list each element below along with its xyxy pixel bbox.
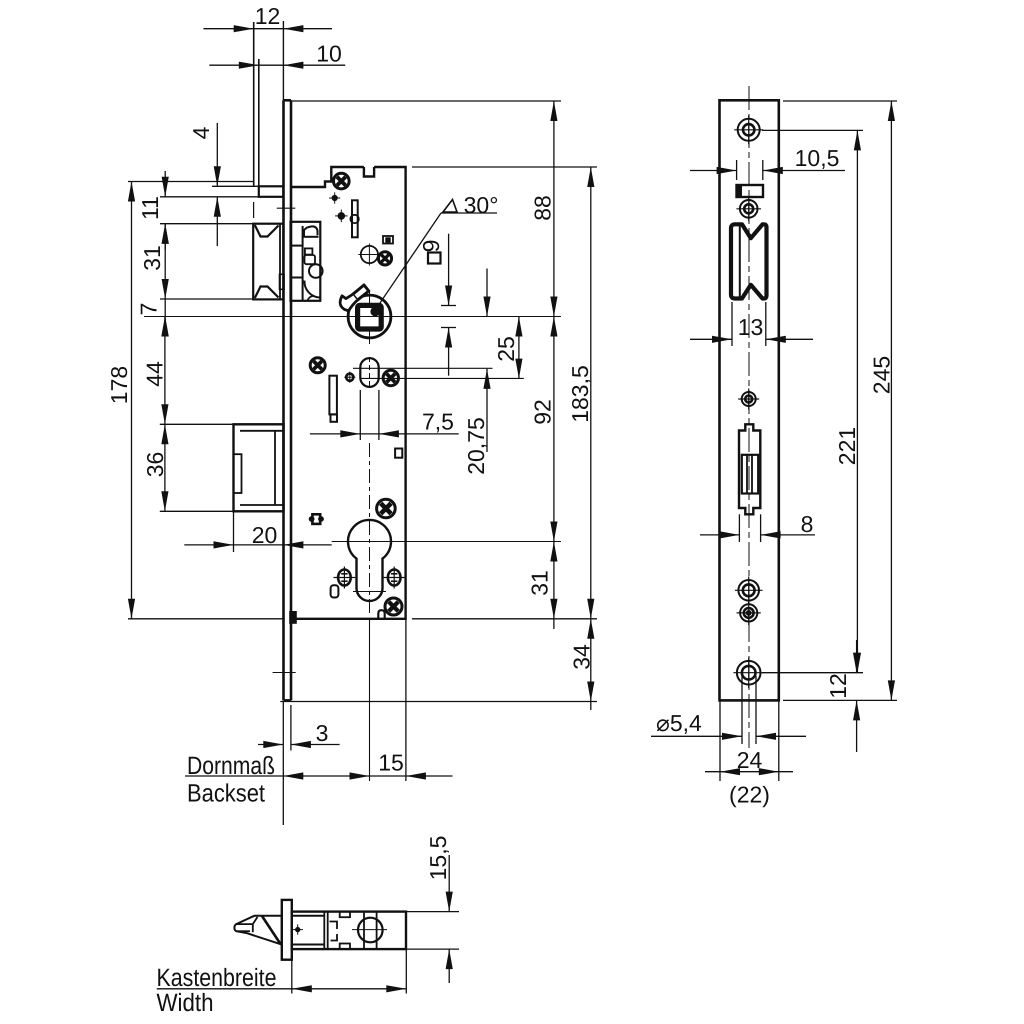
dimension 221 — [856, 130, 858, 672]
bottom view latch tail lines — [292, 915, 325, 917]
dimension 7,5 — [359, 390, 361, 440]
svg-text:12: 12 — [825, 673, 851, 699]
case step extension left — [128, 181, 253, 183]
svg-text:30°: 30° — [464, 192, 499, 218]
svg-text:24: 24 — [737, 747, 763, 773]
dimension 20,75 — [486, 269, 488, 317]
pivot dot small upper — [332, 195, 337, 200]
dimension 25 — [518, 317, 520, 379]
strip foot bottom extension left — [160, 196, 259, 198]
nut axis line — [144, 316, 561, 318]
svg-text:7: 7 — [136, 303, 162, 316]
svg-text:183,5: 183,5 — [567, 365, 593, 423]
svg-text:34: 34 — [569, 644, 595, 670]
front screw hole small upper — [740, 200, 758, 218]
front screw hole top — [738, 119, 760, 141]
dimension 8 — [738, 514, 740, 542]
plate top extension for 245 — [783, 100, 897, 102]
small rounded hole below left screw — [331, 585, 339, 597]
svg-text:36: 36 — [142, 452, 168, 478]
svg-text:10,5: 10,5 — [795, 145, 840, 171]
svg-text:(22): (22) — [729, 782, 770, 808]
upper strip rod (12mm bar) — [253, 22, 255, 186]
dimension 31 lower — [553, 542, 555, 630]
nut pin dot — [371, 307, 380, 316]
main view faceplate (side) — [282, 100, 285, 700]
deadbolt head — [234, 424, 284, 511]
svg-text:245: 245 — [869, 356, 895, 394]
dimension 10 — [209, 64, 345, 66]
bottom view pivot dot — [296, 927, 300, 931]
case top edge extension right — [412, 166, 597, 168]
cylinder fixing screw left — [338, 570, 351, 586]
lock case outline — [292, 167, 364, 187]
svg-text:13: 13 — [738, 314, 764, 340]
svg-text:8: 8 — [801, 511, 814, 537]
latch spring box inside case — [291, 222, 321, 301]
dimension 92 — [553, 317, 555, 542]
bottom view case — [292, 912, 406, 950]
svg-text:⌀5,4: ⌀5,4 — [656, 710, 702, 736]
screw top extension for 221 — [762, 129, 863, 131]
svg-text:11: 11 — [137, 196, 163, 220]
nut centrelines — [369, 290, 371, 303]
svg-text:3: 3 — [316, 720, 329, 746]
dimension 20 — [233, 511, 235, 552]
svg-text:88: 88 — [530, 195, 556, 221]
front faceplate centreline — [748, 86, 750, 748]
deadbolt bottom extension left — [160, 510, 234, 512]
dimension 15,5 — [406, 911, 459, 913]
small hole left of capsule — [346, 374, 353, 381]
faceplate stop pin (black square) — [290, 612, 297, 624]
faceplate centre tick lower — [273, 672, 296, 674]
dimension 12 right — [856, 640, 858, 673]
faceplate bottom extension right — [280, 701, 597, 703]
square follower hole 9mm — [358, 305, 382, 329]
dimension 10,5 — [736, 160, 738, 180]
svg-text:7,5: 7,5 — [422, 409, 454, 435]
kastenbreite dimension line — [291, 958, 293, 994]
case screw bottom — [385, 598, 402, 615]
front screw hole pair upper — [738, 580, 759, 601]
plate bottom extension right — [783, 699, 897, 701]
latch bolt head — [253, 224, 283, 300]
bottom view latch beak — [234, 916, 281, 945]
svg-text:4: 4 — [188, 126, 214, 139]
adjust slot upper — [352, 200, 358, 237]
latch rear tab — [280, 274, 285, 289]
tiny tab at case bottom — [378, 610, 384, 619]
dimension diameter 5,4 — [741, 676, 743, 744]
case screw left of capsule — [310, 358, 325, 373]
backset dimension line — [369, 620, 371, 781]
svg-text:Backset: Backset — [187, 780, 265, 808]
cylinder fixing screw right — [388, 570, 401, 586]
svg-text:178: 178 — [106, 366, 132, 404]
svg-text:92: 92 — [530, 399, 556, 425]
top faceplate extension line — [291, 100, 561, 102]
dimension 13 — [731, 302, 733, 346]
case screw right of capsule — [383, 370, 398, 385]
dimension 11 — [164, 171, 166, 197]
svg-text:44: 44 — [142, 361, 168, 387]
dimension square 9 — [448, 234, 450, 306]
faceplate front extension above — [282, 21, 284, 100]
bone shaped hole — [309, 517, 314, 522]
svg-text:Dornmaß: Dornmaß — [187, 752, 275, 780]
dimension 34 — [590, 619, 592, 710]
faceplate centre tick upper — [277, 207, 296, 209]
deadbolt front tab — [234, 454, 242, 493]
dimension 36 — [164, 424, 166, 511]
dimension 88 — [553, 101, 555, 317]
front latch opening — [731, 224, 767, 298]
capsule slot hole 7.5mm — [360, 358, 378, 387]
small square hole near case edge — [395, 449, 402, 458]
dimension 12 — [203, 28, 332, 30]
case bottom extension left — [128, 618, 283, 620]
strip foot tab (4mm) — [259, 186, 284, 197]
guide circle with crosshair — [361, 246, 378, 263]
cylinder centrelines — [369, 443, 371, 615]
latch bottom extension left — [160, 298, 253, 300]
svg-text:12: 12 — [255, 3, 281, 29]
svg-text:25: 25 — [493, 336, 519, 362]
front deadbolt slot — [739, 424, 760, 514]
dimension 31 latch — [164, 224, 166, 299]
dimension 3 — [282, 702, 284, 825]
svg-text:31: 31 — [139, 245, 165, 271]
capsule centre dashes — [369, 357, 371, 389]
case screw above cylinder — [377, 499, 396, 518]
latch top extension left — [160, 223, 253, 225]
angle leader 30deg — [441, 212, 497, 214]
latch top chamfer — [255, 225, 279, 237]
dimension 183,5 — [590, 167, 592, 619]
svg-text:10: 10 — [316, 41, 342, 67]
front screw hole pair lower — [740, 604, 757, 621]
svg-text:20,75: 20,75 — [463, 417, 489, 475]
svg-text:221: 221 — [834, 427, 860, 465]
pivot dot small lower — [338, 213, 345, 220]
latch lever arm on nut — [353, 285, 369, 300]
front screw hole bottom — [737, 661, 761, 685]
front screw hole mid — [742, 392, 756, 406]
spindle nut circle — [348, 295, 391, 338]
hole centre extension for 221/12 — [762, 672, 863, 674]
dimension 7 — [164, 299, 166, 332]
bottom view nut circle — [358, 918, 383, 943]
deadbolt top extension left — [160, 423, 234, 425]
case bottom extension right — [412, 618, 597, 620]
front rect hole 10,5 — [737, 185, 764, 197]
latch bottom chamfer — [255, 287, 279, 299]
latch face extension dash — [253, 202, 255, 218]
euro cylinder hole — [348, 520, 391, 601]
svg-text:15,5: 15,5 — [425, 836, 451, 881]
bottom view tabs — [340, 912, 350, 918]
front faceplate outline — [720, 100, 779, 700]
dimension 44 — [164, 317, 166, 425]
dimension 24 — [719, 700, 721, 781]
case screw mid-upper — [378, 252, 391, 265]
bottom view partition lines — [323, 912, 325, 950]
svg-text:Kastenbreite: Kastenbreite — [157, 964, 277, 992]
dimension 4 — [216, 123, 218, 186]
svg-text:20: 20 — [252, 522, 278, 548]
strip foot top extension left — [212, 185, 259, 187]
adjust slot lower — [329, 376, 337, 415]
svg-text:31: 31 — [527, 570, 553, 596]
bottom view mid bracket — [330, 922, 338, 930]
svg-text:Width: Width — [157, 989, 214, 1017]
svg-text:15: 15 — [378, 750, 404, 776]
case top notch — [364, 167, 374, 177]
case screw top-left — [334, 173, 350, 189]
bottom view faceplate bar — [282, 900, 292, 960]
dimension 178 — [131, 182, 133, 619]
dimension 245 — [890, 101, 892, 700]
small square hole with pin — [383, 236, 393, 244]
